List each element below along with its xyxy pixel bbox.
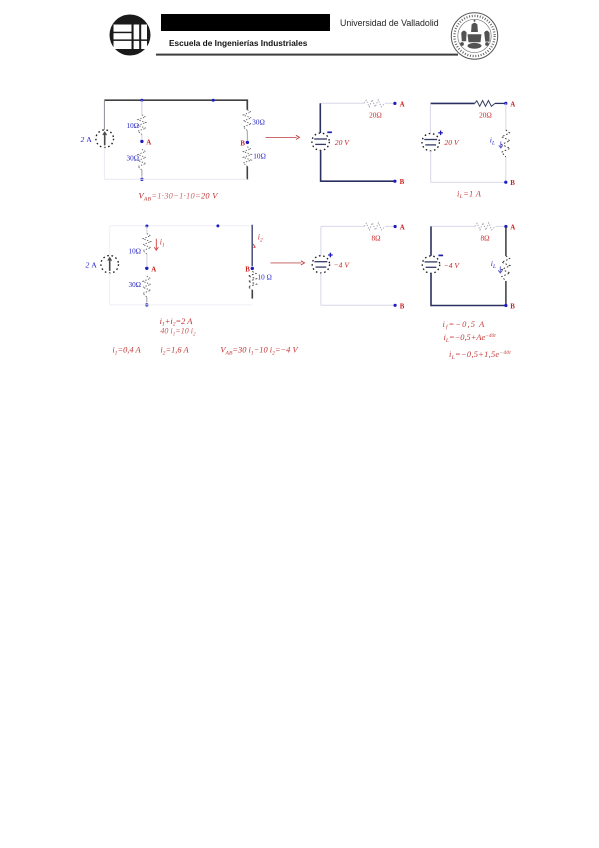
node A circuit6 (504, 225, 507, 228)
header rule (156, 54, 458, 56)
voltage source -4V circuit5 (312, 256, 329, 273)
node B circuit4 (251, 267, 254, 270)
svg-text:8Ω: 8Ω (480, 234, 490, 243)
svg-text:20 V: 20 V (335, 138, 350, 147)
current source I1 2A circuit1 (96, 130, 114, 148)
node junction dot top-mid circuit1 (140, 99, 143, 102)
voltage source 20V circuit3 (422, 134, 439, 151)
header university seal (451, 13, 497, 59)
wire: circuit2 top right segment (faint) (385, 102, 395, 104)
wire: circuit2 left vertical lower (320, 150, 322, 182)
wire: circuit1 right vertical lower (246, 166, 248, 179)
resistor 30 Ohm circuit4 (143, 276, 151, 297)
transformation arrow 2 (271, 262, 302, 264)
svg-text:A: A (510, 224, 515, 231)
node junction dot top-right-span circuit1 (212, 99, 215, 102)
node A circuit5 (394, 225, 397, 228)
arrow i2 circuit4 (253, 244, 255, 247)
svg-text:30Ω: 30Ω (128, 281, 141, 289)
wire: circuit4 mid lower stub (146, 297, 148, 302)
svg-text:10Ω: 10Ω (126, 122, 139, 130)
wire: circuit4 bottom horizontal (faint) (110, 304, 253, 306)
wire: circuit4 left vertical (faint) (109, 226, 111, 256)
svg-text:30Ω: 30Ω (252, 119, 265, 127)
svg-text:B: B (245, 267, 250, 274)
wire: circuit6 right vertical upper (505, 227, 507, 257)
polarity minus mark circuit6 (439, 254, 444, 256)
svg-text:B: B (510, 180, 515, 187)
svg-text:Universidad de Valladolid: Universidad de Valladolid (340, 18, 439, 28)
arrow iL circuit6 (498, 267, 502, 274)
svg-text:B: B (400, 179, 405, 186)
svg-text:B: B (400, 303, 405, 310)
svg-text:A: A (151, 266, 156, 273)
header black bar (161, 14, 330, 31)
svg-text:20Ω: 20Ω (479, 111, 492, 120)
wire: circuit5 left vertical lower (faint) (320, 273, 322, 305)
wire: circuit3 top right segment (495, 102, 506, 104)
load resistor iL circuit6 (502, 256, 510, 281)
wire: circuit3 top left segment (430, 102, 474, 104)
arrow iL circuit3 (499, 142, 503, 149)
svg-text:A: A (510, 101, 515, 108)
svg-text:A: A (400, 101, 405, 108)
resistor 30 Ohm right circuit1 (243, 110, 251, 131)
resistor 10 Ohm right circuit1 (243, 147, 251, 167)
svg-text:10Ω: 10Ω (128, 247, 141, 255)
wire: circuit3 bottom horizontal (faint) (431, 181, 506, 183)
wire: circuit5 top left segment (faint) (321, 225, 364, 227)
wire: circuit4 top horizontal (very faint) (110, 225, 253, 227)
wire: circuit1 right stub above B (246, 131, 248, 141)
wire: circuit6 left vertical upper (430, 226, 432, 256)
wire: circuit1 left vertical upper (103, 100, 105, 130)
svg-text:A: A (400, 224, 405, 231)
svg-text:Escuela de Ingenierías Industr: Escuela de Ingenierías Industriales (169, 38, 308, 48)
resistor 10 Ohm circuit1 (138, 115, 146, 135)
wire: circuit1 mid branch upper stub (141, 100, 143, 115)
wire: circuit3 left vertical lower (faint) (430, 151, 432, 182)
resistor 20 Ohm circuit2 (364, 100, 385, 107)
node B circuit2 (393, 180, 396, 183)
current source I1 2A circuit4 (101, 255, 119, 273)
node A circuit2 (393, 102, 396, 105)
polarity plus mark circuit3 (438, 132, 443, 134)
wire: circuit1 top horizontal (104, 99, 247, 101)
wire: circuit1 mid stub above node A (141, 135, 143, 140)
node A circuit4 (145, 267, 148, 270)
wire: circuit5 left vertical upper (faint) (320, 226, 322, 255)
wire: circuit6 top right segment (faint) (495, 225, 506, 227)
wire: circuit6 top left segment (faint) (431, 225, 475, 227)
svg-text:B: B (240, 141, 245, 148)
node A circuit3 (504, 102, 507, 105)
node B circuit3 (504, 181, 507, 184)
wire: circuit6 left vertical lower (430, 273, 432, 306)
transformation arrow 1 (266, 136, 297, 138)
load resistor iL circuit3 (502, 130, 510, 157)
svg-text:20 V: 20 V (444, 138, 459, 147)
polarity minus mark circuit2 (327, 131, 332, 133)
svg-text:10 Ω: 10 Ω (258, 273, 272, 281)
wire: circuit1 left vertical lower (faint) (103, 148, 105, 180)
load resistor 10 Ohm circuit4 (248, 272, 256, 291)
svg-text:−4 V: −4 V (334, 261, 351, 270)
svg-text:10Ω: 10Ω (253, 152, 266, 160)
resistor 8 Ohm circuit5 (364, 223, 385, 230)
resistor 10 Ohm circuit4 (143, 234, 151, 255)
wire: circuit1 bottom horizontal (faint) (104, 178, 247, 180)
wire: circuit3 right stub upper (faint) (505, 103, 507, 130)
wire: circuit6 right vertical lower (505, 281, 507, 306)
wire: circuit2 top left segment (faint) (320, 102, 364, 104)
wire: circuit4 right vertical upper (251, 225, 253, 267)
arrow i1 circuit4 (154, 239, 158, 250)
svg-text:2 A: 2 A (86, 261, 98, 270)
node B circuit1 (246, 141, 249, 144)
wire: circuit4 right vertical lower (251, 290, 253, 299)
wire: circuit2 left vertical upper (319, 103, 321, 133)
svg-text:A: A (146, 139, 151, 146)
wire: circuit5 top right segment (faint) (385, 225, 395, 227)
header EII logo (110, 15, 151, 56)
svg-text:30Ω: 30Ω (126, 155, 139, 163)
node junction dot top-mid circuit4 (145, 225, 148, 228)
wire: circuit1 mid lower stub (141, 170, 143, 176)
svg-text:−4 V: −4 V (444, 261, 461, 270)
wire: circuit5 bottom horizontal (faint) (321, 304, 395, 306)
svg-text:8Ω: 8Ω (371, 233, 381, 242)
wire: circuit3 right stub lower (faint) (505, 157, 507, 182)
polarity plus mark circuit5 (328, 254, 333, 256)
voltage source -4V circuit6 (422, 256, 439, 273)
voltage source 20V circuit2 (312, 133, 329, 150)
svg-text:20Ω: 20Ω (369, 110, 382, 119)
svg-text:B: B (510, 304, 515, 311)
node B circuit6 (504, 304, 507, 307)
node junction dot top-span circuit4 (216, 224, 219, 227)
svg-text:2 A: 2 A (81, 135, 93, 144)
resistor 8 Ohm circuit6 (475, 223, 496, 230)
wire: circuit4 left vertical lower (faint) (109, 273, 111, 305)
node B circuit5 (394, 304, 397, 307)
resistor 30 Ohm circuit1 (138, 149, 146, 170)
wire: circuit4 mid upper stub (146, 226, 148, 234)
wire: circuit1 right vertical upper (246, 99, 248, 109)
resistor 20 Ohm circuit3 (475, 101, 495, 107)
node junction dot bottom-mid circuit1 (140, 178, 143, 181)
node A circuit1 (140, 140, 143, 143)
wire: circuit3 left vertical upper (faint) (429, 103, 431, 133)
wire: circuit2 bottom horizontal (321, 180, 395, 182)
wire: circuit4 mid stub above A (146, 254, 148, 266)
wire: circuit6 bottom horizontal (431, 305, 506, 307)
node junction dot bottom-mid circuit4 (145, 303, 148, 306)
